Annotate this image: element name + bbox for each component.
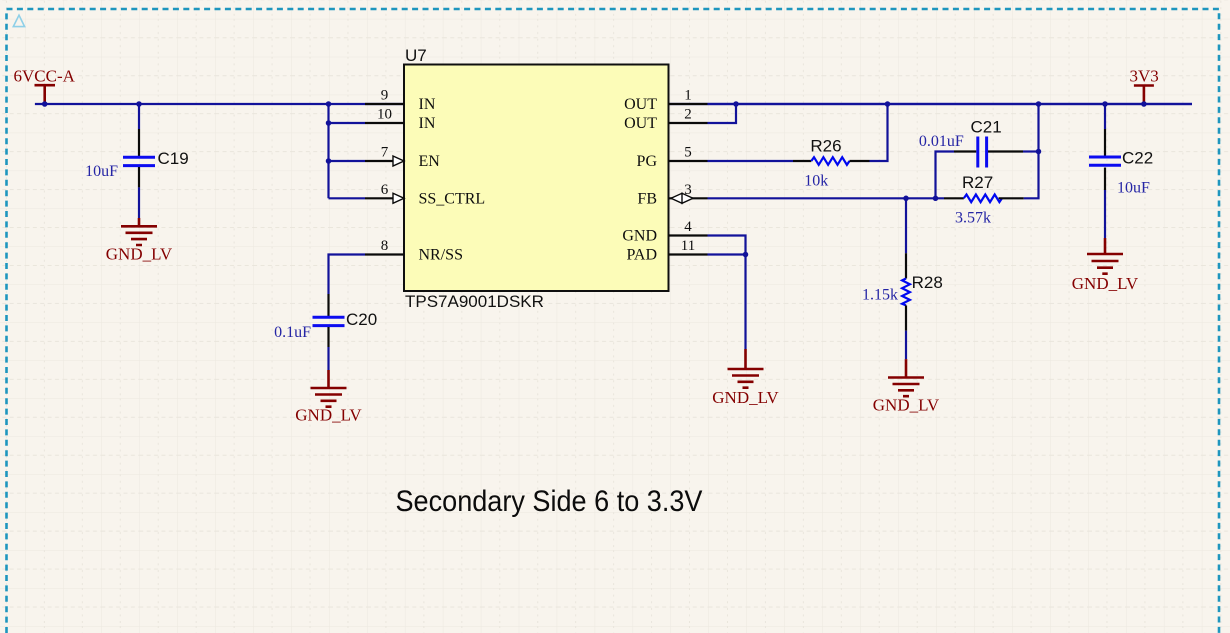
svg-text:5: 5 [684, 145, 692, 161]
svg-text:C20: C20 [346, 310, 377, 329]
svg-text:R28: R28 [912, 273, 943, 292]
wire pin2 to rail [708, 104, 737, 123]
wire main rail [35, 103, 1192, 105]
ground GND_LV (C22) [1072, 238, 1139, 293]
svg-text:10uF: 10uF [1117, 180, 1150, 197]
svg-text:3V3: 3V3 [1130, 66, 1159, 85]
wire C21 left branch [936, 152, 955, 199]
wire C21 right [1023, 150, 1039, 152]
svg-text:PG: PG [637, 153, 658, 170]
svg-text:C22: C22 [1122, 149, 1153, 168]
svg-text:IN: IN [419, 96, 436, 113]
svg-text:GND_LV: GND_LV [712, 388, 779, 407]
svg-text:R27: R27 [962, 173, 993, 192]
pin 2 OUT [624, 107, 707, 133]
corner triangle [13, 15, 24, 26]
svg-text:9: 9 [381, 88, 389, 104]
svg-text:OUT: OUT [624, 115, 657, 132]
svg-text:7: 7 [381, 145, 389, 161]
svg-text:C21: C21 [971, 118, 1002, 137]
pin 6 SS_CTRL [365, 182, 485, 208]
pin 1 OUT [624, 88, 707, 114]
wire R28 top [905, 198, 907, 253]
ground GND_LV (U7 pad) [712, 349, 779, 407]
capacitor C20 [274, 294, 377, 347]
svg-text:4: 4 [684, 219, 692, 235]
pin 5 PG [637, 145, 708, 171]
svg-text:Secondary Side 6 to 3.3V: Secondary Side 6 to 3.3V [396, 485, 703, 518]
svg-text:2: 2 [684, 107, 692, 123]
svg-text:0.1uF: 0.1uF [274, 324, 311, 341]
svg-text:GND_LV: GND_LV [295, 406, 362, 425]
wire pin4/11 to gnd [708, 236, 746, 350]
svg-text:R26: R26 [810, 136, 841, 155]
pin 4 GND [622, 219, 707, 245]
wire left bus [329, 104, 366, 198]
svg-text:1.15k: 1.15k [862, 286, 898, 303]
wire C19 to gnd [138, 187, 140, 218]
wire R28 to gnd [905, 331, 907, 359]
svg-text:IN: IN [419, 115, 436, 132]
svg-text:0.01uF: 0.01uF [919, 133, 964, 150]
svg-text:1: 1 [684, 88, 692, 104]
resistor R28 [862, 253, 943, 331]
wire R27 to corner [1024, 104, 1039, 198]
svg-text:GND_LV: GND_LV [1072, 274, 1139, 293]
capacitor C22 [1089, 129, 1153, 197]
svg-text:8: 8 [381, 238, 389, 254]
wire C19 branch [138, 104, 140, 129]
svg-text:GND_LV: GND_LV [873, 396, 940, 415]
svg-text:6: 6 [381, 182, 389, 198]
ground GND_LV (R28) [873, 359, 940, 414]
svg-text:C19: C19 [158, 149, 189, 168]
power port 3V3 [1130, 66, 1159, 104]
pin 11 PAD [626, 238, 707, 264]
svg-text:U7: U7 [405, 46, 427, 65]
wire C22 branch [1104, 104, 1106, 129]
pin 9 IN [365, 88, 436, 114]
svg-text:11: 11 [681, 238, 695, 254]
svg-text:FB: FB [637, 190, 657, 207]
svg-text:OUT: OUT [624, 96, 657, 113]
pin 10 IN [365, 107, 436, 133]
power port 6VCC-A [14, 66, 76, 104]
wire C22 to gnd [1104, 190, 1106, 238]
junction dots [42, 101, 1147, 257]
pin 8 NR/SS [365, 238, 463, 264]
wire PG to R26 [708, 160, 794, 162]
resistor R27 [944, 173, 1024, 227]
wire FB line [708, 197, 945, 199]
svg-text:10uF: 10uF [85, 163, 118, 180]
pin 7 EN [365, 145, 440, 171]
svg-text:NR/SS: NR/SS [419, 247, 463, 264]
wire C20 to gnd [327, 347, 329, 370]
pin 3 FB [637, 182, 707, 208]
resistor R26 [793, 136, 870, 189]
capacitor C21 [919, 118, 1023, 168]
svg-text:3.57k: 3.57k [955, 210, 991, 227]
wire NR/SS [329, 255, 366, 295]
svg-text:TPS7A9001DSKR: TPS7A9001DSKR [405, 292, 544, 311]
svg-text:6VCC-A: 6VCC-A [14, 66, 76, 85]
ground GND_LV (C19) [106, 218, 173, 264]
capacitor C19 [85, 129, 189, 187]
svg-text:10k: 10k [804, 172, 828, 189]
wire OUT rail right [708, 103, 1193, 105]
ground GND_LV (C20) [295, 370, 362, 425]
op-amp U7 TPS7A9001DSKR body [404, 46, 669, 311]
svg-text:SS_CTRL: SS_CTRL [419, 190, 486, 207]
svg-text:PAD: PAD [626, 247, 657, 264]
wire R26 to rail [870, 104, 888, 161]
svg-text:EN: EN [419, 153, 441, 170]
svg-text:GND_LV: GND_LV [106, 245, 173, 264]
svg-text:3: 3 [684, 182, 692, 198]
svg-text:GND: GND [622, 228, 657, 245]
svg-text:10: 10 [377, 107, 392, 123]
